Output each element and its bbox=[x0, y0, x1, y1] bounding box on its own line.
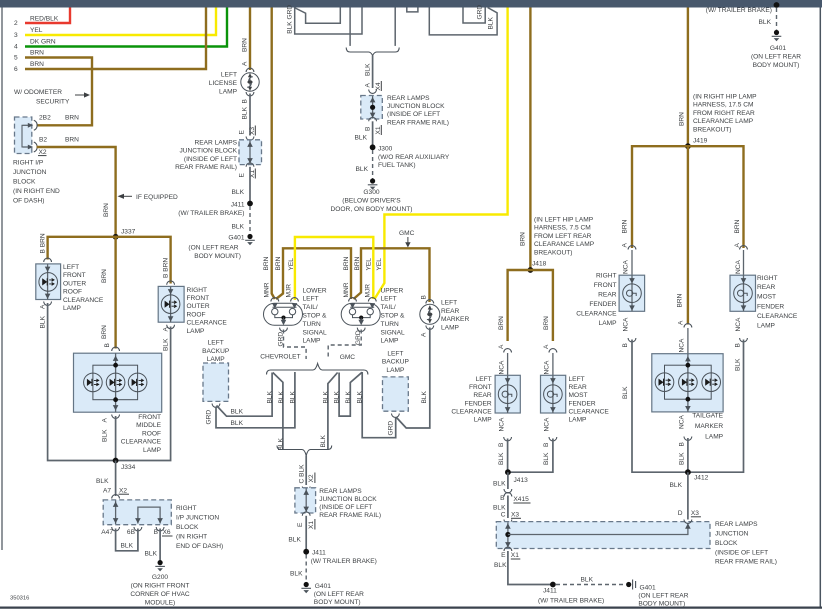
brace header to X4 bbox=[346, 48, 399, 56]
svg-text:BLK: BLK bbox=[493, 505, 506, 512]
wire BLK J334 loop right bbox=[116, 327, 171, 461]
wire BLK backup1 pin to brace a bbox=[217, 373, 274, 417]
node J411 (license) bbox=[178, 201, 253, 217]
svg-text:RIGHT: RIGHT bbox=[176, 505, 197, 512]
svg-text:J419: J419 bbox=[693, 138, 708, 145]
svg-text:CLEARANCE LAMP: CLEARANCE LAMP bbox=[693, 118, 754, 125]
svg-text:G401: G401 bbox=[315, 583, 331, 590]
lamp front middle roof clearance bbox=[74, 353, 162, 412]
wire BLK X1 to J300 bbox=[355, 121, 373, 147]
svg-text:B: B bbox=[734, 343, 741, 348]
svg-text:LEFT: LEFT bbox=[476, 376, 492, 383]
svg-text:LAMP: LAMP bbox=[63, 305, 82, 312]
svg-text:X2: X2 bbox=[39, 149, 47, 156]
pin 2B2 bbox=[23, 115, 79, 131]
svg-text:NCA: NCA bbox=[623, 317, 630, 332]
node J413 bbox=[505, 469, 528, 484]
junction block rear lamps X4 bbox=[361, 96, 383, 120]
wire BLK header to X4 bbox=[365, 56, 373, 89]
wire BLK J334 to X2 bbox=[96, 461, 116, 497]
svg-text:LEFT: LEFT bbox=[221, 72, 237, 79]
junction block right I/P (bottom) bbox=[103, 500, 171, 525]
svg-text:NCA: NCA bbox=[498, 360, 505, 375]
svg-text:LAMP: LAMP bbox=[441, 324, 460, 331]
svg-text:CHEVROLET: CHEVROLET bbox=[260, 354, 300, 361]
svg-text:BLOCK: BLOCK bbox=[13, 179, 36, 186]
wire BLK brace to X2 bbox=[298, 456, 306, 486]
wire BLK B to G200 bbox=[145, 529, 161, 562]
pin B left front outer bbox=[40, 233, 52, 262]
lamp left front rear fender clearance bbox=[495, 375, 520, 413]
svg-text:MJR: MJR bbox=[365, 284, 372, 298]
brace to rear lamps junction bbox=[277, 446, 332, 456]
node J334 bbox=[113, 458, 136, 471]
svg-text:SIGNAL: SIGNAL bbox=[303, 329, 328, 336]
svg-text:CLEARANCE: CLEARANCE bbox=[451, 408, 492, 415]
svg-text:W/ ODOMETER: W/ ODOMETER bbox=[14, 89, 62, 96]
svg-text:(INSIDE OF LEFT: (INSIDE OF LEFT bbox=[319, 504, 372, 511]
ground G401 (license) bbox=[188, 234, 254, 260]
svg-text:E: E bbox=[501, 552, 506, 559]
node J410 (w/ trailer brake, top right) bbox=[706, 2, 780, 14]
svg-text:(W/ TRAILER BRAKE): (W/ TRAILER BRAKE) bbox=[178, 210, 244, 217]
svg-text:X1: X1 bbox=[308, 521, 315, 529]
svg-text:YEL: YEL bbox=[376, 258, 383, 271]
wire BRN B2 to J337 bbox=[37, 147, 116, 237]
wire GRD dashed upper tail bbox=[328, 330, 362, 360]
pin A marker lamp bbox=[421, 332, 428, 337]
svg-text:B: B bbox=[421, 295, 428, 300]
pin B X6 bbox=[154, 527, 173, 536]
svg-text:LEFT: LEFT bbox=[387, 351, 403, 358]
svg-text:LEFT: LEFT bbox=[208, 340, 224, 347]
wire BLK left fender pair to J413 bbox=[508, 439, 553, 473]
svg-text:G200: G200 bbox=[152, 574, 168, 581]
svg-text:J411: J411 bbox=[231, 202, 245, 209]
svg-text:BLK: BLK bbox=[622, 386, 629, 399]
lamp right rear most fender clearance bbox=[730, 275, 756, 311]
svg-text:BLK: BLK bbox=[679, 452, 686, 465]
pin 6B bbox=[127, 527, 142, 536]
wire BLK dashed J411 to G401 center bbox=[290, 555, 306, 582]
svg-text:B2: B2 bbox=[39, 137, 47, 144]
svg-text:6: 6 bbox=[14, 66, 18, 73]
svg-text:LOWER: LOWER bbox=[303, 287, 327, 294]
junction block U1 right I/P (top) bbox=[15, 117, 32, 154]
svg-text:X2: X2 bbox=[119, 488, 127, 495]
ground G401 center bbox=[301, 582, 364, 606]
svg-text:BRN: BRN bbox=[354, 256, 361, 270]
label right I/P junction block bbox=[13, 160, 60, 205]
svg-text:GRD: GRD bbox=[387, 421, 394, 436]
svg-text:BLK: BLK bbox=[421, 390, 428, 403]
svg-text:B: B bbox=[500, 495, 505, 502]
svg-text:BRN: BRN bbox=[101, 325, 108, 339]
pin B tailgate marker bbox=[679, 414, 692, 465]
pin E X1 (bottom right) bbox=[501, 547, 520, 559]
svg-text:ROOF: ROOF bbox=[187, 311, 206, 318]
svg-text:JUNCTION BLOCK: JUNCTION BLOCK bbox=[387, 103, 445, 110]
svg-text:FENDER: FENDER bbox=[465, 400, 492, 407]
svg-text:BLK: BLK bbox=[498, 452, 505, 465]
brace chevrolet/gmc bbox=[267, 364, 368, 375]
pin C X3 (big block) bbox=[501, 512, 521, 524]
svg-text:X2: X2 bbox=[308, 474, 315, 482]
svg-text:RIGHT: RIGHT bbox=[187, 287, 208, 294]
svg-text:FRONT: FRONT bbox=[63, 272, 86, 279]
svg-text:CORNER OF HVAC: CORNER OF HVAC bbox=[130, 591, 189, 598]
wire BRN J419 branches bbox=[632, 146, 744, 248]
svg-text:BLK: BLK bbox=[121, 543, 134, 550]
svg-text:BLK: BLK bbox=[288, 537, 301, 544]
pin A X4 bbox=[365, 81, 382, 93]
label rear lamps junction block (bottom right) bbox=[715, 521, 777, 566]
svg-text:(W/ TRAILER BRAKE): (W/ TRAILER BRAKE) bbox=[706, 7, 772, 14]
wire BLK dashed J411 to G401 right bbox=[556, 577, 626, 585]
svg-text:BLK: BLK bbox=[278, 390, 285, 403]
label upper left tail lamp bbox=[381, 287, 406, 344]
wire 2 RED/BLK bbox=[25, 8, 70, 24]
wire BLK gmc to backup2 bbox=[357, 372, 396, 438]
svg-text:X415: X415 bbox=[513, 496, 529, 503]
svg-text:OUTER: OUTER bbox=[187, 303, 210, 310]
svg-text:RIGHT: RIGHT bbox=[596, 273, 617, 280]
svg-text:B: B bbox=[543, 442, 550, 447]
svg-text:BLK: BLK bbox=[543, 452, 550, 465]
svg-text:C BLK: C BLK bbox=[298, 464, 305, 484]
wire BLK middle to J334 bbox=[115, 416, 117, 461]
svg-text:BLK: BLK bbox=[145, 551, 158, 558]
connector X415 bbox=[500, 489, 530, 503]
svg-text:HARNESS, 17.5 CM: HARNESS, 17.5 CM bbox=[693, 102, 753, 109]
label wire 4 bbox=[14, 39, 56, 51]
svg-text:LAMP: LAMP bbox=[303, 338, 322, 345]
label left hip lamp harness bbox=[520, 217, 595, 268]
svg-text:SECURITY: SECURITY bbox=[36, 99, 70, 106]
svg-text:GRD: GRD bbox=[278, 332, 285, 347]
label right I/P junction block (bottom) bbox=[176, 505, 223, 550]
wire BLK X1 to J411 right bbox=[494, 551, 551, 585]
node J411 center bbox=[303, 549, 377, 565]
svg-text:REAR LAMPS: REAR LAMPS bbox=[319, 488, 362, 495]
pin A tailgate marker bbox=[678, 320, 692, 354]
svg-text:BLK: BLK bbox=[231, 409, 244, 416]
svg-text:E: E bbox=[239, 130, 246, 135]
svg-text:B BRN: B BRN bbox=[40, 233, 47, 253]
svg-text:B: B bbox=[679, 442, 686, 447]
svg-text:MOST: MOST bbox=[569, 392, 588, 399]
svg-text:MARKER: MARKER bbox=[695, 423, 723, 430]
svg-text:A: A bbox=[421, 332, 428, 337]
svg-text:BRN: BRN bbox=[734, 219, 741, 233]
svg-text:BLK: BLK bbox=[267, 390, 274, 403]
wire GRD dashed lower tail bbox=[278, 330, 307, 360]
svg-text:LAMP: LAMP bbox=[187, 328, 206, 335]
ground G401 right (ring) bbox=[626, 580, 689, 608]
wire BLK right front fender to J412 bbox=[632, 340, 688, 473]
svg-text:BLK: BLK bbox=[242, 106, 249, 119]
svg-text:TURN: TURN bbox=[381, 321, 400, 328]
svg-text:BLK: BLK bbox=[232, 224, 245, 231]
svg-text:(ON LEFT REAR: (ON LEFT REAR bbox=[638, 592, 688, 599]
svg-text:RED/BLK: RED/BLK bbox=[30, 16, 59, 23]
svg-text:BODY MOUNT): BODY MOUNT) bbox=[638, 601, 685, 608]
ground G200 bbox=[130, 560, 189, 607]
pin A left front outer bbox=[40, 302, 52, 329]
svg-text:4: 4 bbox=[14, 44, 18, 51]
svg-text:X3: X3 bbox=[249, 127, 256, 135]
node J419 bbox=[685, 143, 691, 149]
svg-text:RIGHT: RIGHT bbox=[757, 275, 778, 282]
svg-text:LAMP: LAMP bbox=[599, 320, 618, 327]
svg-text:HARNESS, 7.5 CM: HARNESS, 7.5 CM bbox=[534, 225, 591, 232]
pin B front middle bbox=[104, 343, 120, 352]
pin B left front rear fender bbox=[498, 417, 512, 465]
wire BRN J419 down bbox=[677, 146, 688, 324]
lamp left backup (gmc) bbox=[382, 351, 410, 436]
label right hip lamp harness bbox=[693, 94, 757, 145]
label tailgate marker lamp bbox=[692, 412, 723, 440]
svg-text:X1: X1 bbox=[375, 126, 382, 134]
lamp upper left tail/stop & turn bbox=[341, 298, 380, 332]
label rear lamps junction block (center) bbox=[319, 488, 381, 519]
svg-text:NCA: NCA bbox=[679, 338, 686, 353]
svg-text:(BELOW DRIVER'S: (BELOW DRIVER'S bbox=[342, 198, 401, 205]
svg-text:BLK: BLK bbox=[493, 481, 506, 488]
svg-text:BLOCK: BLOCK bbox=[715, 540, 738, 547]
svg-text:GRD: GRD bbox=[206, 410, 213, 425]
wire 5 BRN to 2B2 bbox=[25, 58, 92, 126]
svg-text:BLK: BLK bbox=[355, 135, 368, 142]
svg-text:BRN: BRN bbox=[677, 293, 684, 307]
junction block rear lamps (bottom right, wide) bbox=[496, 522, 710, 549]
wire BRN J337 down bbox=[101, 237, 116, 349]
svg-text:LAMP: LAMP bbox=[381, 338, 400, 345]
svg-text:B: B bbox=[498, 442, 505, 447]
svg-text:BREAKOUT): BREAKOUT) bbox=[693, 126, 731, 133]
label left front outer roof clearance lamp bbox=[63, 264, 104, 312]
svg-text:A: A bbox=[365, 83, 372, 88]
wire 4 DK GRN bbox=[25, 8, 227, 47]
wire BLK J334 loop left bbox=[48, 303, 116, 461]
pin E X3 bbox=[239, 126, 256, 141]
label lower left tail lamp bbox=[303, 287, 328, 344]
svg-text:IF EQUIPPED: IF EQUIPPED bbox=[136, 194, 178, 201]
svg-text:FROM RIGHT REAR: FROM RIGHT REAR bbox=[693, 110, 755, 117]
svg-text:J413: J413 bbox=[514, 477, 529, 484]
svg-text:BLK: BLK bbox=[289, 390, 296, 403]
svg-text:FRONT: FRONT bbox=[594, 282, 617, 289]
labels upper tail lamp pins bbox=[343, 256, 383, 297]
pin A47 bbox=[101, 527, 119, 536]
label rear lamps junction block (license) bbox=[175, 140, 238, 172]
pin A7 X2 bbox=[103, 488, 129, 499]
svg-text:350316: 350316 bbox=[10, 596, 29, 602]
pin A front middle bbox=[102, 415, 120, 443]
label left license lamp bbox=[209, 72, 238, 96]
svg-text:BLK: BLK bbox=[345, 390, 352, 403]
labels lower tail lamp pins bbox=[263, 256, 295, 297]
svg-text:B: B bbox=[622, 343, 629, 348]
label CHEVROLET bbox=[260, 354, 300, 361]
svg-text:I/P JUNCTION: I/P JUNCTION bbox=[176, 515, 219, 522]
label BRN A left branch bbox=[622, 219, 629, 247]
svg-text:OUTER: OUTER bbox=[63, 280, 86, 287]
svg-text:REAR FRAME RAIL): REAR FRAME RAIL) bbox=[319, 512, 381, 519]
svg-text:(IN LEFT HIP LAMP: (IN LEFT HIP LAMP bbox=[534, 217, 594, 224]
label right front rear fender clearance lamp bbox=[576, 273, 617, 328]
svg-text:LAMP: LAMP bbox=[207, 356, 226, 363]
svg-text:FRONT: FRONT bbox=[138, 414, 161, 421]
label wire 5 bbox=[14, 50, 44, 62]
svg-text:BLK: BLK bbox=[734, 358, 741, 371]
svg-text:FROM LEFT REAR: FROM LEFT REAR bbox=[534, 233, 592, 240]
wire 3 YEL bbox=[25, 8, 216, 36]
svg-text:BLK: BLK bbox=[96, 478, 109, 485]
svg-text:BRN: BRN bbox=[30, 50, 44, 57]
svg-text:NCA: NCA bbox=[544, 360, 551, 375]
svg-text:X3: X3 bbox=[511, 512, 519, 519]
svg-text:BODY MOUNT): BODY MOUNT) bbox=[194, 253, 241, 260]
svg-text:LEFT: LEFT bbox=[303, 296, 319, 303]
svg-text:J411: J411 bbox=[312, 550, 326, 557]
svg-text:FRONT: FRONT bbox=[469, 384, 492, 391]
svg-text:BLK: BLK bbox=[365, 63, 372, 76]
wire BLK dashed J411 to G401 bbox=[232, 206, 250, 233]
svg-text:BLK: BLK bbox=[670, 482, 683, 489]
svg-text:6B: 6B bbox=[127, 529, 136, 536]
svg-text:REAR FRAME RAIL): REAR FRAME RAIL) bbox=[387, 119, 449, 126]
svg-text:BLOCK: BLOCK bbox=[176, 524, 199, 531]
svg-text:FUEL TANK): FUEL TANK) bbox=[378, 162, 416, 169]
ground G300 bbox=[331, 178, 413, 213]
svg-text:A: A bbox=[40, 304, 47, 309]
svg-text:LAMP: LAMP bbox=[757, 322, 776, 329]
svg-text:(W/ TRAILER BRAKE): (W/ TRAILER BRAKE) bbox=[311, 558, 377, 565]
svg-text:J411: J411 bbox=[543, 587, 557, 594]
wire BLK dashed J300 to G300 bbox=[356, 150, 450, 179]
svg-text:BRN: BRN bbox=[30, 61, 44, 68]
svg-text:A7: A7 bbox=[103, 488, 111, 495]
pin B right front rear fender bbox=[622, 317, 636, 399]
svg-text:SIGNAL: SIGNAL bbox=[381, 329, 406, 336]
svg-text:FENDER: FENDER bbox=[757, 303, 784, 310]
svg-text:JUNCTION: JUNCTION bbox=[13, 169, 47, 176]
svg-text:A: A bbox=[543, 344, 550, 349]
svg-text:BRN: BRN bbox=[622, 219, 629, 233]
svg-text:STOP &: STOP & bbox=[381, 313, 406, 320]
label wire 3 bbox=[14, 27, 43, 39]
pin B marker lamp bbox=[421, 295, 434, 304]
wire BRN to J418 bbox=[529, 8, 531, 271]
svg-text:NCA: NCA bbox=[498, 417, 505, 432]
wire BLK backup1 pin to brace b bbox=[206, 372, 297, 428]
wire BLK chevrolet to bottom brace bbox=[273, 373, 285, 451]
svg-text:REAR: REAR bbox=[598, 292, 617, 299]
ground G401 top right bbox=[751, 30, 801, 69]
svg-text:BACKUP: BACKUP bbox=[382, 359, 410, 366]
wire BLK tailgate to J412 bbox=[687, 438, 689, 472]
svg-text:BLK: BLK bbox=[163, 338, 170, 351]
pin A right rear most fender bbox=[735, 246, 747, 276]
svg-text:DK GRN: DK GRN bbox=[30, 39, 56, 46]
svg-text:BLK: BLK bbox=[290, 571, 303, 578]
svg-text:UPPER: UPPER bbox=[381, 287, 404, 294]
svg-text:G401: G401 bbox=[770, 45, 786, 52]
svg-text:GRD: GRD bbox=[355, 330, 362, 345]
pin B right rear most fender bbox=[734, 317, 747, 371]
svg-text:(ON LEFT REAR: (ON LEFT REAR bbox=[188, 245, 238, 252]
svg-text:BREAKOUT): BREAKOUT) bbox=[534, 249, 572, 256]
svg-text:LEFT: LEFT bbox=[569, 376, 585, 383]
svg-text:NCA: NCA bbox=[544, 417, 551, 432]
lamp left backup (chevrolet) bbox=[202, 340, 230, 408]
svg-text:2: 2 bbox=[14, 20, 18, 27]
svg-text:BRN: BRN bbox=[498, 316, 505, 330]
svg-text:BLK: BLK bbox=[357, 390, 364, 403]
svg-text:YEL: YEL bbox=[30, 27, 43, 34]
svg-text:BRN: BRN bbox=[65, 137, 79, 144]
pin C X2 (rear lamps) bbox=[302, 473, 315, 491]
svg-text:G401: G401 bbox=[228, 235, 244, 242]
svg-text:B BRN: B BRN bbox=[163, 258, 170, 278]
svg-text:(ON RIGHT FRONT: (ON RIGHT FRONT bbox=[131, 583, 190, 590]
svg-text:X3: X3 bbox=[691, 510, 699, 517]
wire 6 BRN bbox=[25, 8, 206, 70]
svg-text:BRN: BRN bbox=[101, 269, 108, 283]
svg-text:MIDDLE: MIDDLE bbox=[136, 422, 162, 429]
ground distribution header left bbox=[287, 5, 396, 46]
ground distribution header right bbox=[429, 5, 497, 35]
svg-text:FENDER: FENDER bbox=[589, 301, 616, 308]
svg-text:BODY MOUNT): BODY MOUNT) bbox=[753, 62, 800, 69]
svg-text:YEL: YEL bbox=[288, 258, 295, 271]
wire BLK J413 to X415 bbox=[493, 472, 508, 489]
svg-text:JUNCTION BLOCK: JUNCTION BLOCK bbox=[179, 148, 237, 155]
svg-text:CLEARANCE: CLEARANCE bbox=[569, 408, 610, 415]
svg-text:CLEARANCE: CLEARANCE bbox=[187, 320, 228, 327]
svg-text:(ON LEFT REAR: (ON LEFT REAR bbox=[314, 591, 364, 598]
pin A right front outer bbox=[163, 325, 175, 351]
svg-text:D: D bbox=[678, 510, 683, 517]
wire YEL top to upper tail lamp bbox=[375, 8, 508, 300]
svg-text:X6: X6 bbox=[163, 529, 171, 536]
wire BLK J412 to X3 bbox=[670, 472, 688, 519]
svg-text:A: A bbox=[678, 320, 685, 325]
label GMC bbox=[340, 354, 356, 361]
svg-text:B: B bbox=[104, 343, 111, 348]
svg-text:G300: G300 bbox=[363, 189, 379, 196]
pin A right front rear fender bbox=[623, 246, 636, 276]
note GMC arrow bbox=[399, 230, 415, 248]
svg-text:(IN RIGHT: (IN RIGHT bbox=[176, 534, 207, 541]
wire BRN rail lower-upper MNR bbox=[276, 248, 351, 299]
svg-text:REAR LAMPS: REAR LAMPS bbox=[715, 521, 758, 528]
svg-text:BLK GRD: BLK GRD bbox=[287, 5, 294, 34]
wire BLK marker to backup GRD bbox=[397, 328, 430, 429]
svg-text:BLK: BLK bbox=[102, 429, 109, 442]
pin B left rear most fender bbox=[543, 417, 557, 465]
svg-text:C: C bbox=[501, 512, 506, 519]
svg-text:STOP &: STOP & bbox=[303, 313, 328, 320]
pin A left front rear fender bbox=[498, 316, 512, 375]
svg-text:CLEARANCE: CLEARANCE bbox=[121, 439, 162, 446]
svg-text:YEL: YEL bbox=[366, 258, 373, 271]
svg-text:LEFT: LEFT bbox=[441, 300, 457, 307]
wire BLK right rear most to J412 bbox=[688, 340, 744, 473]
svg-text:J334: J334 bbox=[121, 464, 136, 471]
wire BLK A47 to 6B bbox=[116, 529, 138, 551]
